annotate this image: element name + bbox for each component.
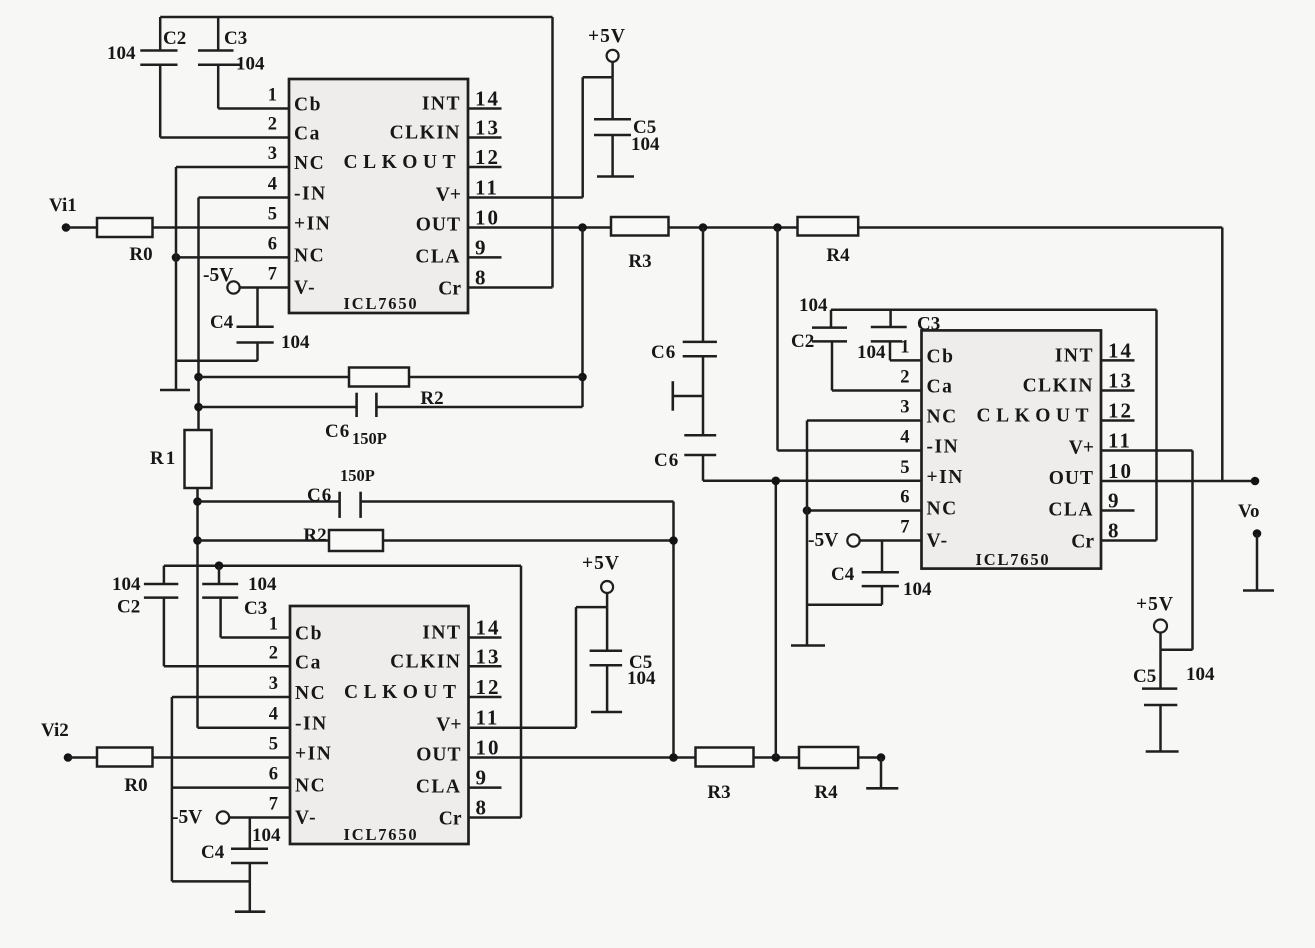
U3 pin 13 stub [1101,389,1135,392]
svg-text:13: 13 [476,644,501,668]
resistor R4 (lower, to ground) [799,747,858,803]
svg-text:-IN: -IN [295,714,328,735]
wire OUT down to R2 [581,228,584,408]
capacitor C2 (U1) [107,17,186,138]
svg-text:ICL7650: ICL7650 [344,294,419,313]
svg-text:C4: C4 [831,564,855,585]
node U1 OUT / R2 feedback [578,223,587,232]
wire U1 pin1 Cb [218,107,289,110]
ground (U3 C5) [1146,750,1179,753]
wire -5V to U3 pin7 V- [859,539,922,542]
ground (U1 C5) [597,175,634,178]
svg-text:Vi2: Vi2 [41,720,69,741]
svg-text:C3: C3 [917,314,940,335]
svg-text:Vo: Vo [1238,501,1259,522]
wire U1 pin2 Ca [160,136,289,139]
wire rail C2/C3 to U2 pin8 Cr [164,566,521,818]
svg-text:INT: INT [1055,345,1094,366]
U1 pin 13 stub [468,136,502,139]
svg-text:CLKIN: CLKIN [390,123,461,144]
svg-text:Vi1: Vi1 [49,195,77,216]
svg-text:8: 8 [475,266,488,290]
supply +5V (U1) [588,26,626,62]
wire R3 to R4 (A3 +IN node) [754,756,800,759]
svg-text:12: 12 [1108,399,1133,423]
node U3 NC junction [803,506,812,515]
svg-text:+IN: +IN [927,467,964,488]
capacitor C5 (U3) [1133,650,1215,752]
wire U2 pin10 OUT [469,756,696,759]
supply -5V (U1) [203,265,240,294]
resistor R3 (lower) [696,748,754,804]
svg-text:C3: C3 [224,28,247,49]
svg-text:104: 104 [236,54,265,75]
capacitor C4 (U1) [210,288,310,361]
U2 pin 12 stub [469,696,502,699]
node +IN A3 tap [772,753,781,762]
wire U3 NC rail down [806,421,809,646]
capacitor C5 (U1) [594,77,660,176]
svg-text:2: 2 [900,368,909,388]
ground (U1 NC/C4) [160,389,190,392]
svg-text:104: 104 [112,574,141,595]
svg-text:6: 6 [269,765,278,785]
svg-text:R0: R0 [124,775,147,796]
svg-text:-IN: -IN [294,184,327,205]
wire Vi1 to R0 [66,226,97,229]
supply -5V (U3) [808,530,860,551]
wire -IN rail down to R1 [197,198,200,431]
svg-text:NC: NC [927,407,958,428]
U2 pin 14 stub [469,636,502,639]
svg-text:12: 12 [476,675,501,699]
svg-text:Ca: Ca [927,377,954,398]
node U2 OUT / feedback junction [669,753,678,762]
wire +IN node up to A3 pin5 [775,481,778,758]
node R2 right junction [578,373,587,382]
svg-text:3: 3 [900,398,909,418]
svg-text:-5V: -5V [808,530,838,551]
svg-text:2: 2 [268,115,277,135]
wire U2 pin6 NC [172,786,290,789]
svg-text:INT: INT [422,623,461,644]
svg-text:C2: C2 [791,331,814,352]
node Vi1 input terminal [49,195,77,232]
svg-text:104: 104 [248,574,277,595]
wire -5V to U1 pin7 V- [239,286,290,289]
svg-text:+5V: +5V [582,553,620,574]
capacitor C2 (U2) [112,566,178,667]
svg-text:14: 14 [476,616,501,640]
wire R4 to ground [858,753,885,788]
ground (lower R4) [866,787,898,790]
svg-text:NC: NC [294,245,325,266]
svg-text:+IN: +IN [295,744,332,765]
svg-text:104: 104 [1186,664,1215,685]
wire U3 pin1 Cb [890,359,922,362]
node rail / C3 stem [215,561,224,570]
svg-text:R0: R0 [129,244,152,265]
svg-text:+IN: +IN [294,214,331,235]
svg-text:INT: INT [422,94,461,115]
svg-text:-IN: -IN [927,437,960,458]
capacitor C2 (U3) [791,295,847,391]
capacitor C3 (U1) [198,17,265,109]
svg-text:7: 7 [268,265,277,285]
wire R2 lower left [198,539,330,542]
wire Vi2 to R0 [68,756,97,759]
svg-text:4: 4 [268,175,277,195]
node R1 bottom / C6 lower [193,497,202,506]
U3 pin 12 stub [1101,419,1135,422]
svg-text:Cr: Cr [1071,532,1094,553]
svg-text:4: 4 [269,705,278,725]
resistor R0 (upper) [97,218,153,265]
svg-text:V-: V- [294,278,316,299]
svg-text:13: 13 [1108,369,1133,393]
svg-text:CLA: CLA [1048,500,1094,521]
node Vo output terminal [1238,477,1259,522]
wire lower feedback vertical to U2 OUT [672,502,675,758]
svg-text:9: 9 [475,235,488,259]
U2 pin 9 stub [469,786,502,789]
wire U2 NC rail down [171,697,174,881]
ground (U3 NC) [791,644,825,647]
svg-text:12: 12 [475,145,500,169]
resistor R0 (lower) [97,748,153,797]
capacitor C3 (U2) [202,566,277,638]
svg-text:V+: V+ [436,185,461,206]
U3 pin 9 stub [1101,509,1135,512]
U3 pin 14 stub [1101,359,1135,362]
svg-text:Ca: Ca [294,124,321,145]
svg-text:10: 10 [1108,459,1133,483]
capacitor C4 (U2) [201,818,281,912]
wire R0 to U2 pin5 +IN [153,756,291,759]
node R2 left junction [194,373,203,382]
wire R2 lower right [383,539,674,542]
svg-text:2: 2 [269,643,278,663]
wire Vo return to ground [1256,534,1259,591]
svg-text:Cb: Cb [294,95,322,116]
svg-text:C4: C4 [201,842,225,863]
capacitor C4 (U3) [831,541,932,605]
svg-text:R4: R4 [814,782,838,803]
ground (Vo) [1243,589,1274,592]
svg-text:6: 6 [900,488,909,508]
svg-text:+5V: +5V [588,26,626,47]
wire C4 return to NC rail [807,603,882,606]
U3 pin numbers 1-7 [900,337,909,537]
svg-text:CLKIN: CLKIN [390,651,461,672]
svg-text:11: 11 [475,176,499,200]
wire +5V to U2 pin11 V+ [469,593,608,728]
svg-text:13: 13 [475,116,500,140]
wire U1 pin3 NC [176,166,289,169]
svg-text:CLA: CLA [415,246,461,267]
wire top rail C2/C3 to U1 pin8 Cr [160,17,552,288]
wire U1 pin4 -IN [199,196,290,199]
wire U2 NC rail to C4 ground [172,880,250,883]
wire +IN line to U3 pin5 [703,480,922,483]
U1 pin 12 stub [468,166,502,169]
svg-text:V-: V- [927,531,949,552]
resistor R2 (lower feedback) [303,525,383,551]
svg-text:C6: C6 [651,342,676,363]
svg-text:9: 9 [476,766,489,790]
capacitor C6 150P (lower feedback) [198,466,674,518]
svg-text:104: 104 [252,825,281,846]
svg-text:5: 5 [269,735,278,755]
resistor R3 (upper) [611,217,669,272]
node R2 lower right junction [669,536,678,545]
node +IN line / riser junction [772,477,781,486]
svg-text:R4: R4 [826,245,850,266]
svg-text:104: 104 [857,342,886,363]
svg-text:5: 5 [900,458,909,478]
supply -5V (U2) [172,807,229,828]
wire U3 pin2 Ca [832,389,922,392]
svg-text:C2: C2 [163,28,186,49]
svg-text:9: 9 [1108,489,1121,513]
svg-text:C6: C6 [307,485,332,506]
op-amp U3 ICL7650 body [922,330,1102,569]
U1 pin numbers 14-8 [475,87,500,290]
wire R2 upper left [199,376,350,379]
U2 pin 13 stub [469,665,502,668]
svg-text:11: 11 [476,706,500,730]
U1 pin 9 stub [468,256,502,259]
wire U2 pin1 Cb [221,636,290,639]
op-amp U1 ICL7650 body [289,79,468,313]
wire U2 pin3 NC [172,696,290,699]
svg-text:R2: R2 [303,525,326,546]
svg-text:150P: 150P [340,466,375,485]
wire U3 pin6 NC [807,509,922,512]
svg-text:10: 10 [475,206,500,230]
resistor R1 (gain) [150,430,212,488]
svg-text:NC: NC [927,499,958,520]
svg-text:104: 104 [627,668,656,689]
svg-text:104: 104 [631,134,660,155]
node Vi2 input terminal [41,720,72,762]
svg-text:V+: V+ [436,715,461,736]
svg-text:8: 8 [1108,519,1121,543]
svg-text:OUT: OUT [1049,468,1094,489]
svg-text:C6: C6 [654,450,679,471]
svg-text:3: 3 [268,144,277,164]
ground (C6 midpoint, sideways) [673,381,703,411]
supply +5V (U3) [1136,594,1174,633]
svg-text:7: 7 [900,518,909,538]
capacitor C3 (U3) [857,310,940,363]
U2 pin numbers 14-8 [476,616,501,820]
svg-text:CLKOUT: CLKOUT [343,152,461,173]
svg-text:3: 3 [269,674,278,694]
wire U2 pin2 Ca [164,665,290,668]
wire -5V to U2 pin7 V- [229,816,291,819]
svg-text:Ca: Ca [295,652,322,673]
svg-text:-5V: -5V [172,807,202,828]
U3 pin numbers 14-8 [1108,338,1133,542]
svg-text:CLKOUT: CLKOUT [976,406,1094,427]
svg-text:Cb: Cb [295,624,323,645]
svg-text:14: 14 [1108,338,1133,362]
svg-text:CLKOUT: CLKOUT [344,682,462,703]
capacitor C6 150P (upper feedback) [199,393,583,448]
svg-text:R3: R3 [628,251,651,272]
svg-text:1: 1 [269,615,278,635]
node -IN A3 / pin4 tap [773,223,782,232]
svg-text:OUT: OUT [416,215,461,236]
wire U3 pin3 NC [807,419,922,422]
wire -IN node down to U3 pin4 [778,228,922,451]
capacitor C5 (U2) [590,607,656,712]
svg-text:5: 5 [268,205,277,225]
wire C6 midpoint [702,356,705,435]
svg-text:104: 104 [903,579,932,600]
wire U3 pin10 OUT to Vo [1101,480,1255,483]
U1 pin 14 stub [468,107,502,110]
svg-text:R1: R1 [150,448,177,469]
svg-text:C4: C4 [210,312,234,333]
svg-text:NC: NC [294,153,325,174]
svg-text:6: 6 [268,234,277,254]
svg-text:150P: 150P [352,429,387,448]
svg-text:ICL7650: ICL7650 [344,825,419,844]
wire U1 pin10 OUT [468,226,611,229]
wire +5V to U3 pin11 V+ [1101,451,1193,650]
svg-text:C3: C3 [244,598,267,619]
wire rail C2/C3 to U3 pin8 Cr [831,310,1157,541]
svg-text:8: 8 [476,796,489,820]
node -IN A3 / C6 tap [699,223,708,232]
svg-text:104: 104 [281,332,310,353]
svg-text:OUT: OUT [416,745,461,766]
svg-text:V-: V- [295,808,317,829]
supply +5V (U2) [582,553,620,593]
ground (U2 C4) [235,910,265,913]
wire R1 bottom [196,488,199,728]
svg-text:Cb: Cb [927,346,955,367]
node Vo return terminal [1253,529,1262,538]
resistor R4 (upper, A3 feedback) [798,217,859,266]
wire R2 upper right [409,376,583,379]
svg-text:CLKIN: CLKIN [1023,376,1094,397]
node R1 bottom / R2 lower [193,536,202,545]
capacitor C6 (mid lower) [654,435,716,481]
wire R3 to R4 (A3 -IN node) [669,226,798,229]
wire U2 pin4 -IN [198,726,291,729]
capacitor C6 (mid upper) [651,228,717,364]
U1 pin numbers 1-7 [268,86,277,285]
op-amp U2 ICL7650 body [290,606,469,844]
svg-text:V+: V+ [1069,438,1094,459]
svg-text:1: 1 [268,86,277,106]
svg-text:Cr: Cr [438,279,461,300]
wire NC rail down [175,167,178,390]
U2 pin numbers 1-7 [269,615,278,815]
wire +5V to U1 pin11 V+ [468,62,613,198]
svg-text:C2: C2 [117,597,140,618]
svg-text:4: 4 [900,428,909,448]
svg-text:7: 7 [269,795,278,815]
svg-text:CLA: CLA [416,777,462,798]
svg-text:14: 14 [475,87,500,111]
wire R4 feedback to A3 OUT [858,228,1222,482]
svg-text:+5V: +5V [1136,594,1174,615]
svg-text:ICL7650: ICL7650 [976,550,1051,569]
svg-text:Cr: Cr [439,809,462,830]
svg-text:NC: NC [295,683,326,704]
svg-text:104: 104 [799,295,828,316]
svg-text:104: 104 [107,43,136,64]
resistor R2 (upper feedback) [349,368,444,410]
node C6 branch left [194,403,203,412]
svg-text:C6: C6 [325,421,350,442]
node U1 NC junction [172,253,181,262]
wire R0 to U1 pin5 +IN [153,226,290,229]
svg-text:10: 10 [476,736,501,760]
svg-text:NC: NC [295,776,326,797]
svg-text:C5: C5 [1133,666,1156,687]
wire U1 pin6 NC [176,256,289,259]
ground (U2 C5) [591,711,622,714]
svg-text:11: 11 [1108,429,1132,453]
wire C4 return to ground rail [176,360,258,363]
svg-text:R3: R3 [707,782,730,803]
